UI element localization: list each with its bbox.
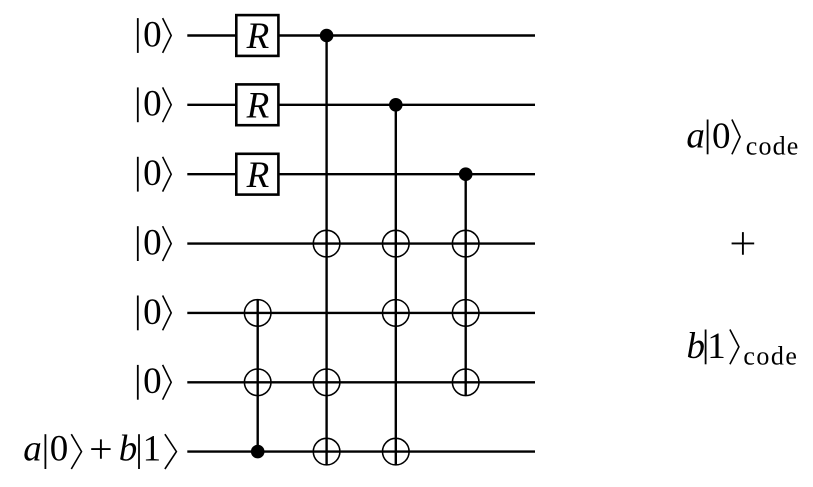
wire q1 — [187, 34, 535, 36]
wire CNOT-2 vertical (q1 control to q4,q6,q7 targets) — [325, 36, 327, 465]
CNOT-2 target on q6 — [313, 369, 340, 396]
node label |0> on q2 — [138, 84, 171, 125]
svg-text:0: 0 — [143, 361, 162, 402]
svg-text:a: a — [686, 116, 705, 157]
CNOT-3 target on q7 — [383, 438, 410, 465]
wire q5 — [187, 312, 535, 314]
node label b|1>code — [687, 326, 797, 370]
svg-text:R: R — [246, 16, 270, 57]
CNOT-2 target on q4 — [313, 230, 340, 257]
control CNOT-1 on q7 — [251, 445, 265, 459]
svg-text:0: 0 — [50, 429, 69, 470]
CNOT-4 target on q5 — [452, 300, 479, 327]
node label |0> on q3 — [138, 153, 171, 194]
svg-text:code: code — [746, 131, 799, 160]
wire q3 — [187, 173, 535, 175]
svg-text:R: R — [246, 86, 270, 127]
CNOT-3 target on q5 — [383, 300, 410, 327]
svg-text:0: 0 — [143, 223, 162, 264]
svg-text:0: 0 — [143, 292, 162, 333]
wire q2 — [187, 104, 535, 106]
CNOT-1 target on q6 — [244, 369, 271, 396]
node label |0> on q5 — [138, 292, 171, 333]
control CNOT-4 on q3 — [459, 167, 473, 181]
CNOT-3 target on q4 — [383, 230, 410, 257]
wire q7 — [187, 450, 535, 452]
svg-text:0: 0 — [143, 14, 162, 55]
svg-text:R: R — [246, 155, 270, 196]
gate R3 (R box on q3) — [236, 154, 278, 196]
CNOT-1 target on q5 — [244, 300, 271, 327]
node label + — [732, 232, 755, 255]
wire CNOT-3 vertical (q2 control to q4,q5,q7 targets) — [395, 105, 397, 465]
svg-text:1: 1 — [707, 326, 726, 367]
svg-text:a: a — [23, 429, 42, 470]
control CNOT-2 on q1 — [320, 29, 334, 43]
svg-text:1: 1 — [143, 429, 162, 470]
wire q6 — [187, 381, 535, 383]
svg-text:0: 0 — [143, 84, 162, 125]
gate R2 (R box on q2) — [236, 84, 278, 126]
svg-text:code: code — [743, 341, 797, 370]
node label |0> on q4 — [138, 223, 171, 264]
node label |0> on q1 — [138, 14, 171, 55]
svg-text:b: b — [687, 326, 706, 367]
wire CNOT-1 vertical (q7 control to q5,q6 targets) — [257, 300, 259, 452]
CNOT-4 target on q4 — [452, 230, 479, 257]
wire q4 — [187, 242, 535, 244]
node label a|0>code — [686, 116, 798, 161]
node label a|0>+b|1> on q7 — [23, 429, 176, 470]
svg-text:b: b — [119, 429, 138, 470]
svg-text:0: 0 — [143, 153, 162, 194]
CNOT-4 target on q6 — [452, 369, 479, 396]
node label |0> on q6 — [138, 361, 171, 402]
CNOT-2 target on q7 — [313, 438, 340, 465]
control CNOT-3 on q2 — [389, 98, 403, 112]
gate R1 (R box on q1) — [236, 15, 278, 57]
svg-text:0: 0 — [712, 116, 731, 157]
wire CNOT-4 vertical (q3 control to q4,q5,q6 targets) — [465, 174, 467, 395]
